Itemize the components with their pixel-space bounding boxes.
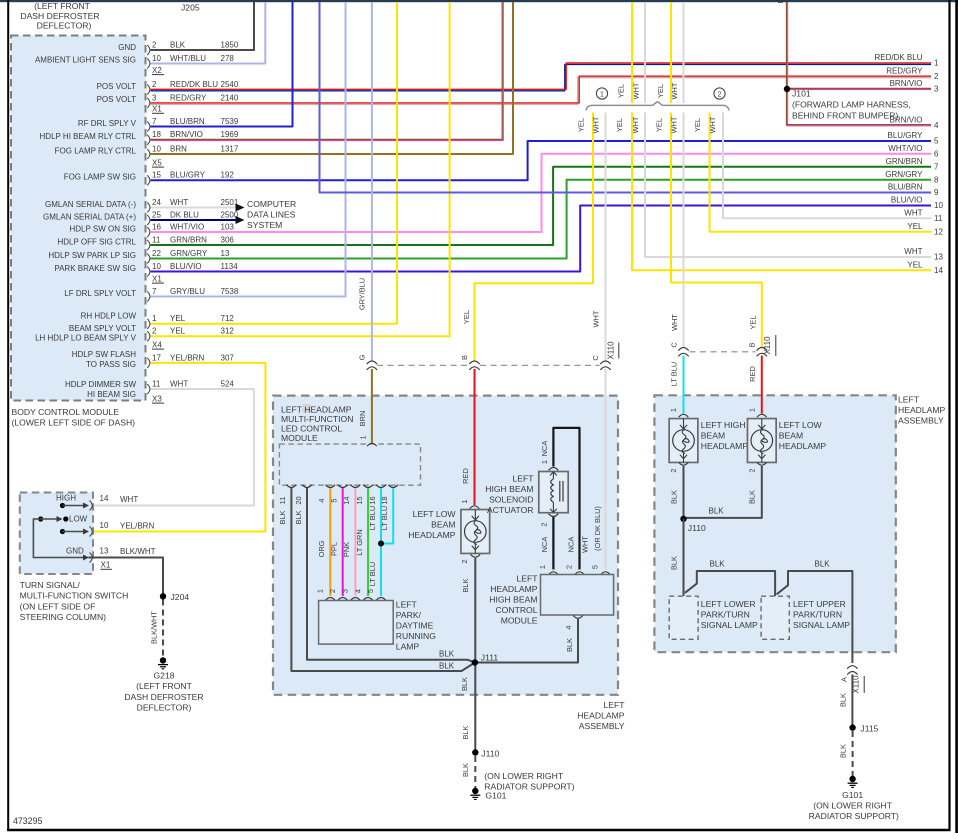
switch pin-10 contact <box>60 529 65 534</box>
junction J204 <box>160 593 166 599</box>
svg-text:DASH DEFROSTER: DASH DEFROSTER <box>20 11 99 21</box>
svg-text:RF DRL SPLY V: RF DRL SPLY V <box>78 119 137 128</box>
svg-text:HIGH: HIGH <box>56 494 76 503</box>
wire DK BLU 2500 to computer data lines <box>151 219 237 221</box>
svg-text:(FORWARD LAMP HARNESS,: (FORWARD LAMP HARNESS, <box>792 100 911 110</box>
svg-text:13: 13 <box>221 249 230 258</box>
svg-text:HDLP SW PARK LP SIG: HDLP SW PARK LP SIG <box>48 251 136 260</box>
svg-text:1: 1 <box>747 408 756 412</box>
svg-text:WHT: WHT <box>170 379 188 388</box>
svg-text:YEL: YEL <box>577 118 586 132</box>
svg-text:POS VOLT: POS VOLT <box>97 82 137 91</box>
svg-text:LEFT LOW: LEFT LOW <box>779 420 823 430</box>
svg-text:HDLP SW FLASH: HDLP SW FLASH <box>72 350 137 359</box>
X110 harness dashed line segment 2 <box>690 351 756 353</box>
svg-text:BEHIND FRONT BUMPER): BEHIND FRONT BUMPER) <box>792 111 898 121</box>
svg-text:BLK: BLK <box>461 725 470 739</box>
svg-text:BLK: BLK <box>709 507 725 516</box>
svg-text:BLK: BLK <box>710 560 726 569</box>
svg-text:LF DRL SPLY VOLT: LF DRL SPLY VOLT <box>64 289 136 298</box>
svg-text:J204: J204 <box>171 592 190 602</box>
wire NCA solenoid pin1 loop to control module pin 2 <box>553 428 579 570</box>
svg-text:3: 3 <box>341 589 350 593</box>
svg-text:HEADLAMP: HEADLAMP <box>577 711 625 721</box>
wire WHT pair4 to exit 11 <box>723 113 931 219</box>
svg-text:X110: X110 <box>607 341 616 360</box>
svg-text:HIGH BEAM: HIGH BEAM <box>485 484 533 494</box>
svg-text:2: 2 <box>152 80 157 89</box>
svg-text:YEL: YEL <box>655 118 664 132</box>
svg-text:YEL: YEL <box>615 118 624 132</box>
svg-text:9: 9 <box>934 188 939 197</box>
svg-text:LEFT LOW: LEFT LOW <box>413 509 457 519</box>
wire RED/DK BLU 2540 to exit 1 <box>151 64 932 90</box>
wire WHT pair1 below brace to connector C <box>605 113 607 362</box>
wire BLK bulb to J111 to J110 <box>474 558 476 750</box>
wire BLK J111 to high-beam control module pin 4 <box>475 619 578 663</box>
svg-text:BLK: BLK <box>439 650 455 659</box>
wire BRN 1317 <box>151 2 514 154</box>
svg-text:G218: G218 <box>153 671 174 681</box>
svg-text:B: B <box>776 0 785 4</box>
wire WHT pair2 above brace <box>644 2 646 103</box>
svg-text:(ON LEFT SIDE OF: (ON LEFT SIDE OF <box>20 601 96 611</box>
svg-text:BLK: BLK <box>294 510 303 524</box>
svg-text:BRN: BRN <box>358 411 367 427</box>
svg-text:7538: 7538 <box>221 287 239 296</box>
left headlamp assembly box (middle) <box>273 396 618 695</box>
svg-text:FOG LAMP RLY CTRL: FOG LAMP RLY CTRL <box>55 146 137 155</box>
svg-text:COMPUTER: COMPUTER <box>247 199 296 209</box>
svg-text:LT BLU: LT BLU <box>670 362 679 386</box>
svg-text:278: 278 <box>221 54 235 63</box>
wire LT BLU to left high beam headlamp <box>683 356 685 414</box>
svg-text:HDLP DIMMER SW: HDLP DIMMER SW <box>65 380 136 389</box>
wire color labels below brace <box>577 116 718 133</box>
svg-text:15: 15 <box>152 171 161 180</box>
junction J110 (middle) <box>472 749 478 755</box>
svg-text:J205: J205 <box>181 3 200 13</box>
svg-text:LEFT LOWER: LEFT LOWER <box>701 599 756 609</box>
wire BRN/VIO exit 3 <box>786 87 931 89</box>
svg-text:BLK/WHT: BLK/WHT <box>149 611 158 644</box>
svg-text:7: 7 <box>152 117 157 126</box>
svg-text:GRN/GRY: GRN/GRY <box>170 249 208 258</box>
svg-text:CONTROL: CONTROL <box>495 605 537 615</box>
svg-text:BLK: BLK <box>278 510 287 524</box>
page left border <box>7 0 9 831</box>
svg-text:GRY/BLU: GRY/BLU <box>358 278 367 310</box>
svg-text:WHT: WHT <box>580 536 589 553</box>
svg-text:BLK: BLK <box>669 490 678 504</box>
svg-text:C: C <box>669 342 678 348</box>
svg-text:GMLAN SERIAL DATA (-): GMLAN SERIAL DATA (-) <box>45 200 136 209</box>
svg-text:WHT: WHT <box>670 314 679 331</box>
wire WHT pair3 to connector C2 <box>683 113 685 348</box>
svg-text:LEFT UPPER: LEFT UPPER <box>793 599 846 609</box>
svg-text:10: 10 <box>100 521 109 530</box>
svg-text:DAYTIME: DAYTIME <box>396 621 434 631</box>
wire RED to left low beam headlamp <box>761 356 763 414</box>
svg-text:J101: J101 <box>792 89 811 99</box>
caption LEFT HIGH BEAM HEADLAMP <box>701 420 749 451</box>
svg-text:RED: RED <box>461 468 470 484</box>
caption LEFT HEADLAMP ASSEMBLY (middle) <box>577 700 625 731</box>
svg-text:WHT: WHT <box>670 116 679 133</box>
svg-text:X110: X110 <box>763 336 772 355</box>
label G218 (LEFT FRONT DASH DEFROSTER DEFLECTOR) <box>124 671 203 713</box>
svg-text:1: 1 <box>460 499 469 503</box>
harness brace <box>586 102 729 111</box>
svg-text:1: 1 <box>669 408 678 412</box>
park/DRL lamp top pin brackets <box>326 598 336 601</box>
svg-text:3: 3 <box>152 93 157 102</box>
svg-text:11: 11 <box>152 235 161 244</box>
junction J101 <box>784 86 790 92</box>
svg-text:BLK: BLK <box>839 693 848 707</box>
svg-text:2: 2 <box>669 468 678 472</box>
body control module box <box>11 36 146 401</box>
wire BLK high beam bulb to J110 (right) <box>683 466 685 519</box>
svg-text:LEFT: LEFT <box>512 474 534 484</box>
LED module bottom pin brackets <box>287 485 297 488</box>
LED control module box <box>279 444 420 485</box>
svg-text:RH HDLP LOW: RH HDLP LOW <box>81 312 137 321</box>
svg-text:1: 1 <box>315 589 324 593</box>
svg-text:306: 306 <box>221 235 235 244</box>
wire YEL/BRN 307 to switch <box>89 363 266 532</box>
left low beam headlamp bulb (right) <box>747 419 776 463</box>
svg-text:4: 4 <box>353 589 362 593</box>
svg-text:HEADLAMP: HEADLAMP <box>701 441 749 451</box>
svg-text:312: 312 <box>221 327 235 336</box>
wire color labels above brace <box>617 82 679 99</box>
svg-text:WHT: WHT <box>170 198 188 207</box>
wire WHT/VIO 103 to exit 6 <box>151 154 932 232</box>
svg-text:ASSEMBLY: ASSEMBLY <box>579 721 625 731</box>
wire WHT (OR DK BLU) to control module pin 5 <box>605 369 607 570</box>
wire WHT pair3 above brace <box>683 2 685 103</box>
wire ORG <box>329 488 331 596</box>
svg-text:YEL: YEL <box>617 84 626 98</box>
wire WHT pair2 to exit 13 <box>645 113 931 258</box>
wire BLK from upper lamp out to ground riser <box>777 571 853 663</box>
svg-text:AMBIENT LIGHT SENS SIG: AMBIENT LIGHT SENS SIG <box>35 56 136 65</box>
svg-text:11: 11 <box>934 214 943 223</box>
svg-text:BLK: BLK <box>669 556 678 570</box>
svg-text:(LEFT FRONT: (LEFT FRONT <box>136 681 192 691</box>
caption LEFT UPPER PARK/TURN SIGNAL LAMP <box>793 599 850 630</box>
wire BRN into LED module pin 1 <box>371 369 373 443</box>
svg-text:10: 10 <box>934 201 943 210</box>
right edge exit wire labels <box>874 53 943 275</box>
svg-text:YEL: YEL <box>907 222 923 231</box>
left lower park/turn signal lamp box <box>669 596 698 639</box>
svg-text:HIGH BEAM: HIGH BEAM <box>489 595 537 605</box>
svg-text:LT BLU: LT BLU <box>368 562 377 586</box>
wire GRY/BLU riser to connector G <box>371 2 373 361</box>
svg-text:TO PASS SIG: TO PASS SIG <box>86 360 136 369</box>
svg-text:2: 2 <box>539 522 548 526</box>
svg-text:YEL: YEL <box>170 314 186 323</box>
wire WHT 2501 to computer data lines <box>151 207 237 209</box>
caption LEFT HEADLAMP MULTI-FUNCTION LED CONTROL MODULE <box>281 405 353 444</box>
caption LEFT LOW BEAM HEADLAMP (right) <box>779 420 827 451</box>
junction of LT BLU wires <box>378 541 384 547</box>
svg-text:J111: J111 <box>481 653 499 663</box>
svg-text:WHT: WHT <box>904 247 922 256</box>
svg-text:WHT: WHT <box>708 116 717 133</box>
svg-text:GND: GND <box>66 547 84 556</box>
svg-text:(LEFT FRONT: (LEFT FRONT <box>34 1 90 11</box>
ground G218 <box>160 657 166 663</box>
svg-text:7: 7 <box>152 287 157 296</box>
caption LEFT HEADLAMP HIGH BEAM CONTROL MODULE <box>489 574 538 626</box>
svg-text:C: C <box>591 355 600 361</box>
svg-text:BODY CONTROL MODULE: BODY CONTROL MODULE <box>12 407 120 417</box>
svg-text:RED/DK BLU: RED/DK BLU <box>874 53 922 62</box>
wire BLK 1850 to J205 <box>151 2 255 50</box>
svg-text:A: A <box>839 677 848 682</box>
svg-text:RED/GRY: RED/GRY <box>886 66 923 75</box>
svg-text:13: 13 <box>100 547 109 556</box>
wire GRN/GRY 13 to exit 8 <box>151 180 932 259</box>
svg-text:G101: G101 <box>485 791 506 801</box>
caption LEFT HEADLAMP ASSEMBLY (right) <box>898 395 946 426</box>
svg-text:YEL/BRN: YEL/BRN <box>170 353 204 362</box>
svg-text:HI BEAM SIG: HI BEAM SIG <box>87 390 136 399</box>
svg-text:WHT: WHT <box>670 82 679 99</box>
svg-text:WHT: WHT <box>904 209 922 218</box>
svg-text:10: 10 <box>152 54 161 63</box>
svg-text:1: 1 <box>934 59 939 68</box>
caption LEFT LOW BEAM HEADLAMP (middle) <box>408 509 456 540</box>
svg-text:LEFT: LEFT <box>516 574 538 584</box>
svg-text:SIGNAL LAMP: SIGNAL LAMP <box>701 620 758 630</box>
svg-text:SYSTEM: SYSTEM <box>247 220 282 230</box>
svg-text:10: 10 <box>152 144 161 153</box>
svg-text:SIGNAL LAMP: SIGNAL LAMP <box>793 620 850 630</box>
wire BLK dashed J115 to G101 (right) <box>852 731 854 776</box>
svg-text:13: 13 <box>934 253 943 262</box>
svg-text:BLK: BLK <box>461 578 470 592</box>
svg-text:LED CONTROL: LED CONTROL <box>281 424 342 434</box>
wire NCA solenoid pin2 to control module pin 1 <box>552 517 554 570</box>
svg-text:MODULE: MODULE <box>281 433 318 443</box>
svg-text:HDLP OFF SIG CTRL: HDLP OFF SIG CTRL <box>57 237 136 246</box>
svg-text:14: 14 <box>934 266 943 275</box>
BCM connector section labels X2/X1/X5/X1/X4/X3 <box>152 66 164 404</box>
svg-text:25: 25 <box>152 210 161 219</box>
svg-text:(ON LOWER RIGHT: (ON LOWER RIGHT <box>813 801 893 811</box>
svg-text:4: 4 <box>934 121 939 130</box>
svg-text:FOG LAMP SW SIG: FOG LAMP SW SIG <box>64 173 136 182</box>
svg-text:524: 524 <box>221 379 235 388</box>
svg-text:2540: 2540 <box>221 80 239 89</box>
svg-text:X3: X3 <box>152 394 162 403</box>
svg-text:MODULE: MODULE <box>501 616 538 626</box>
svg-text:BLK: BLK <box>461 763 470 777</box>
label J101 (FORWARD LAMP HARNESS, BEHIND FRONT BUMPER) <box>792 89 911 121</box>
label (LEFT FRONT DASH DEFROSTER DEFLECTOR) top-left <box>20 1 99 31</box>
svg-text:NCA: NCA <box>567 537 576 553</box>
svg-text:WHT: WHT <box>120 495 138 504</box>
caption LEFT HIGH BEAM SOLENOID ACTUATOR <box>485 474 534 516</box>
svg-text:HEADLAMP: HEADLAMP <box>408 530 456 540</box>
svg-text:YEL: YEL <box>748 316 757 330</box>
svg-text:B: B <box>748 342 757 347</box>
svg-text:BLU/VIO: BLU/VIO <box>891 196 923 205</box>
svg-text:BRN/VIO: BRN/VIO <box>890 79 923 88</box>
BCM pin connector brackets <box>147 45 150 394</box>
svg-text:YEL: YEL <box>693 118 702 132</box>
svg-text:RED: RED <box>748 366 757 382</box>
svg-text:103: 103 <box>221 222 235 231</box>
svg-text:BLU/BRN: BLU/BRN <box>170 117 205 126</box>
svg-text:6: 6 <box>934 149 939 158</box>
svg-text:ORG: ORG <box>317 540 326 557</box>
svg-text:16: 16 <box>152 222 161 231</box>
wire LT GRN <box>367 488 369 596</box>
svg-text:(LOWER LEFT SIDE OF DASH): (LOWER LEFT SIDE OF DASH) <box>12 418 136 428</box>
page bottom border <box>7 829 950 831</box>
svg-text:DEFLECTOR): DEFLECTOR) <box>37 21 92 31</box>
svg-text:2: 2 <box>565 565 574 569</box>
svg-text:307: 307 <box>221 353 235 362</box>
switch caption <box>20 580 129 622</box>
svg-text:4: 4 <box>564 625 573 629</box>
svg-text:BEAM: BEAM <box>779 431 803 441</box>
svg-text:ACTUATOR: ACTUATOR <box>487 505 533 515</box>
turn signal / multi-function switch box <box>20 493 93 575</box>
svg-text:GRY/BLU: GRY/BLU <box>170 287 205 296</box>
label COMPUTER DATA LINES SYSTEM <box>247 199 296 230</box>
switch common pole wire <box>33 519 84 558</box>
svg-text:RED/GRY: RED/GRY <box>170 93 207 102</box>
svg-text:J110: J110 <box>688 523 706 533</box>
svg-text:DEFLECTOR): DEFLECTOR) <box>137 703 192 713</box>
page top dark strip <box>0 0 958 2</box>
svg-text:BLK: BLK <box>839 744 848 758</box>
svg-text:G101: G101 <box>842 790 863 800</box>
connector C X110 <box>600 361 610 364</box>
svg-text:WHT/BLU: WHT/BLU <box>170 54 206 63</box>
svg-text:5: 5 <box>934 137 939 146</box>
svg-text:WHT: WHT <box>592 310 601 327</box>
wire BLK low beam bulb to J110 (right) <box>686 466 762 518</box>
wire BRN/VIO 1969 <box>151 2 503 139</box>
svg-text:HEADLAMP: HEADLAMP <box>898 405 946 415</box>
svg-text:BLK: BLK <box>748 490 757 504</box>
left park/daytime running lamp box <box>319 601 394 645</box>
highlight behind H <box>303 404 312 413</box>
wire LT BLU pin 16 to lamp pin 5 <box>380 488 382 596</box>
label (ON LOWER RIGHT RADIATOR SUPPORT) G101 (middle) <box>484 771 574 801</box>
svg-text:192: 192 <box>221 171 235 180</box>
svg-text:J115: J115 <box>860 724 878 734</box>
caption LEFT PARK/DAYTIME RUNNING LAMP <box>396 600 436 652</box>
svg-text:1: 1 <box>152 314 157 323</box>
left headlamp high beam control module box <box>541 575 614 616</box>
svg-text:RED/DK BLU: RED/DK BLU <box>170 80 218 89</box>
wire YEL 712 <box>151 2 398 324</box>
svg-text:YEL: YEL <box>656 84 665 98</box>
BCM pin numbers / wire colors / circuit numbers <box>152 40 239 388</box>
svg-text:5: 5 <box>366 589 375 593</box>
wire BLU/BRN exit 9 from top <box>320 2 932 193</box>
svg-text:1: 1 <box>538 565 547 569</box>
svg-text:HEADLAMP: HEADLAMP <box>779 441 827 451</box>
ground G101 (middle) <box>472 788 478 794</box>
svg-text:GMLAN SERIAL DATA (+): GMLAN SERIAL DATA (+) <box>43 212 136 221</box>
svg-text:SOLENOID: SOLENOID <box>489 495 533 505</box>
left low beam headlamp bulb (middle) <box>461 510 490 554</box>
svg-text:LH HDLP LO BEAM SPLY V: LH HDLP LO BEAM SPLY V <box>35 334 137 343</box>
svg-text:X2: X2 <box>152 66 162 75</box>
connector C2 X110 <box>678 348 688 351</box>
svg-text:BLU/GRY: BLU/GRY <box>170 171 206 180</box>
wire YEL 312 <box>151 2 450 336</box>
svg-text:LT BLU: LT BLU <box>368 506 377 530</box>
svg-text:8: 8 <box>934 175 939 184</box>
svg-text:B: B <box>460 355 469 360</box>
svg-text:X1: X1 <box>152 274 162 283</box>
wire BLU/GRY 192 to exit 5 <box>151 141 932 180</box>
svg-text:X4: X4 <box>152 340 162 349</box>
X110 harness dashed line segment 1 <box>377 364 469 366</box>
svg-text:LOW: LOW <box>69 515 88 524</box>
svg-text:TURN SIGNAL/: TURN SIGNAL/ <box>20 580 81 590</box>
connector G <box>367 361 377 364</box>
svg-text:20: 20 <box>294 496 303 504</box>
caption LEFT LOWER PARK/TURN SIGNAL LAMP <box>701 599 758 630</box>
svg-text:WHT: WHT <box>631 82 640 99</box>
wire PNK <box>354 488 356 596</box>
junction J111 <box>472 659 478 665</box>
svg-text:GRN/BRN: GRN/BRN <box>886 157 923 166</box>
connector A X110 <box>847 666 857 669</box>
svg-text:BRN: BRN <box>170 144 187 153</box>
wire BLK connector A to J115 <box>851 675 853 725</box>
svg-text:17: 17 <box>152 353 161 362</box>
svg-text:GRN/GRY: GRN/GRY <box>885 170 923 179</box>
svg-text:BRN/VIO: BRN/VIO <box>890 116 923 125</box>
svg-text:WHT: WHT <box>592 116 601 133</box>
svg-text:BLK: BLK <box>565 638 574 652</box>
svg-text:BEAM: BEAM <box>431 520 455 530</box>
svg-text:16: 16 <box>368 496 377 504</box>
svg-text:BLU/GRY: BLU/GRY <box>888 131 924 140</box>
wire YEL pair2 above brace <box>631 2 633 103</box>
svg-text:3: 3 <box>934 85 939 94</box>
svg-text:HEADLAMP: HEADLAMP <box>490 584 538 594</box>
high beam control module top pin brackets <box>549 572 559 575</box>
svg-text:7539: 7539 <box>221 117 239 126</box>
svg-text:LEFT: LEFT <box>396 600 418 610</box>
svg-text:BEAM SPLY VOLT: BEAM SPLY VOLT <box>69 324 136 333</box>
wire J101 BRN/VIO riser <box>786 2 788 125</box>
wire GRY/BLU 7538 <box>151 2 346 297</box>
svg-text:BLK: BLK <box>439 662 455 671</box>
wire YEL pair3 above brace <box>670 2 672 103</box>
wire PPL <box>342 488 344 596</box>
svg-text:X1: X1 <box>101 561 111 570</box>
svg-text:LEFT HIGH: LEFT HIGH <box>701 420 746 430</box>
svg-text:POS VOLT: POS VOLT <box>97 95 137 104</box>
svg-text:1134: 1134 <box>221 262 239 271</box>
svg-text:BEAM: BEAM <box>701 431 725 441</box>
wire BLU/BRN 7539 <box>151 2 293 127</box>
